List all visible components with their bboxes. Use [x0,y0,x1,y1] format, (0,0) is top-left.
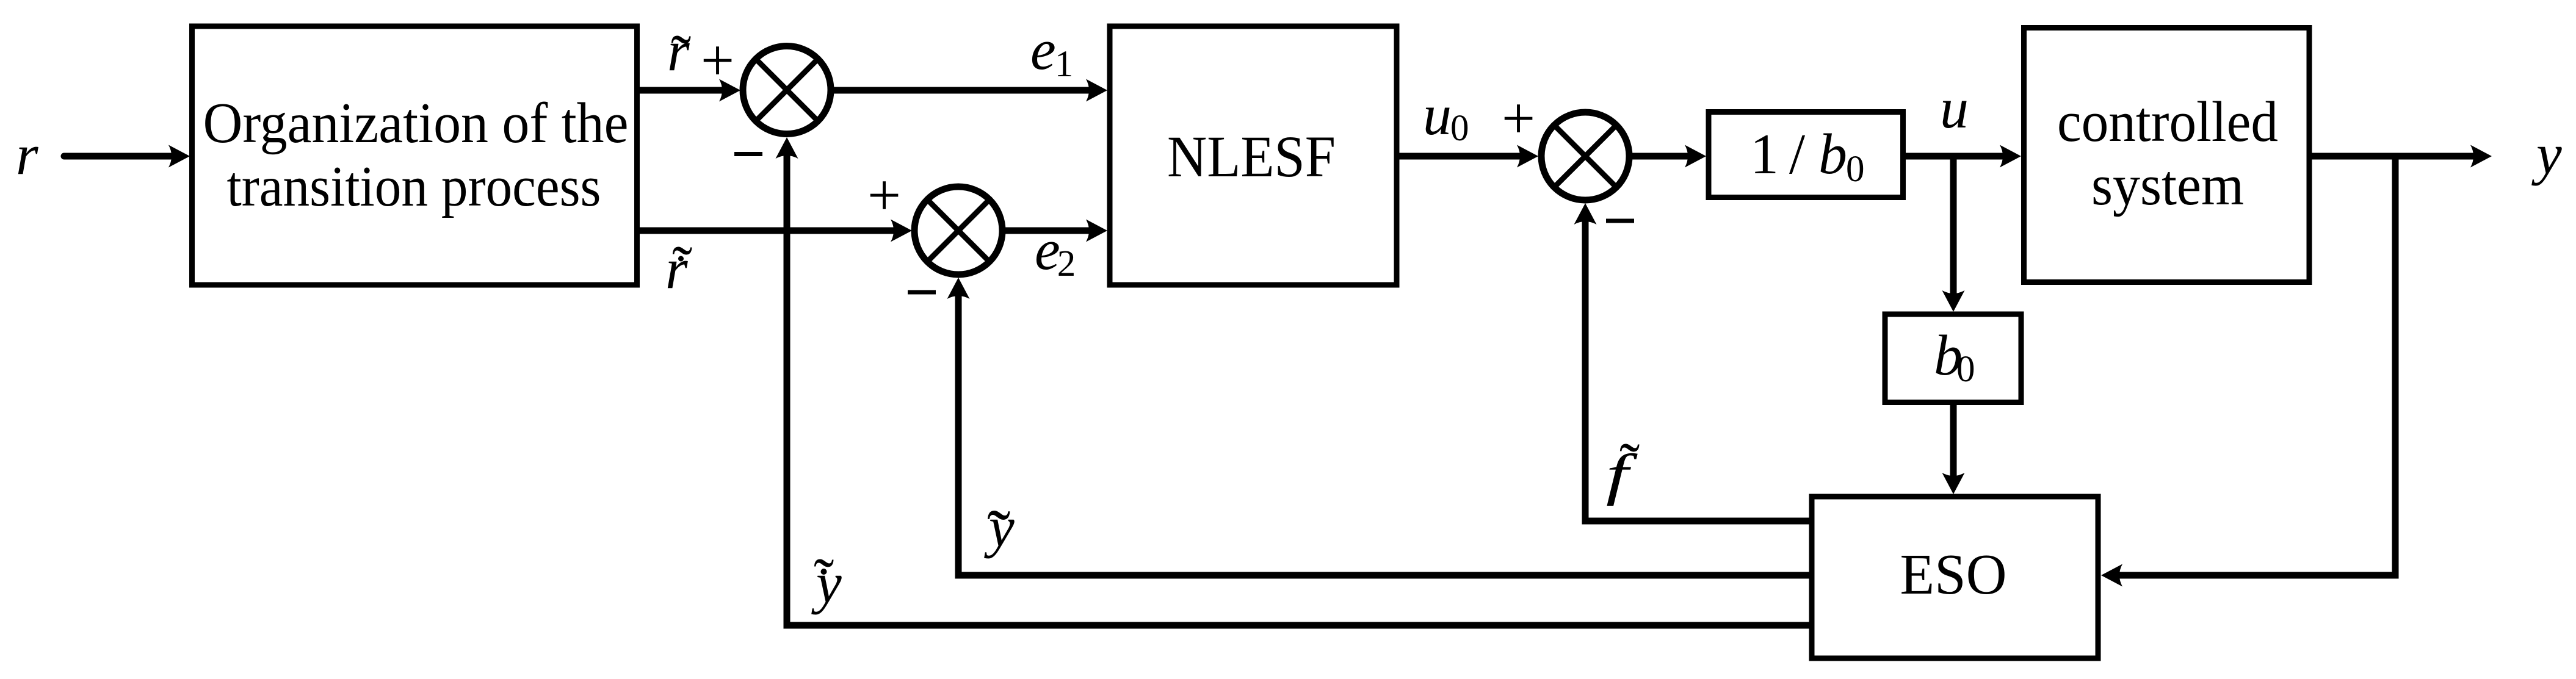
svg-text:u0: u0 [1423,84,1469,149]
wire y-tilde-dot from ESO to sum1 [787,149,1812,625]
svg-text:ESO: ESO [1900,543,2007,606]
label y-tilde-dot [811,546,842,615]
label r-tilde [667,20,691,90]
label r-tilde-dot [665,234,692,301]
box NLESF [1110,26,1397,285]
arrowhead into 1/b0 [1685,145,1706,168]
label controlled system [2057,90,2278,217]
arrowhead e1 into NLESF [1086,79,1107,102]
svg-text:Organization of the: Organization of the [203,92,629,155]
box transition process organizer [192,26,637,285]
arrowhead e2 into NLESF [1086,220,1107,242]
svg-text:˜: ˜ [1619,431,1640,498]
label Organization of the transition process [203,92,629,218]
wire y-tilde from ESO to sum2 [958,290,1812,575]
box b0 [1885,314,2021,403]
svg-text:+: + [867,162,901,228]
svg-text:transition process: transition process [227,155,601,218]
svg-text:1/b0: 1/b0 [1750,123,1865,190]
arrowhead down into ESO [1942,473,1965,494]
summing junction sum3 [1541,112,1629,200]
svg-text:r: r [16,123,38,187]
svg-text:˜: ˜ [671,23,691,90]
wire box1 top output to sum1 [640,87,728,94]
box ESO [1812,497,2098,658]
wire y feedback down and into ESO [2113,156,2395,575]
box 1/b0 [1709,112,1903,198]
svg-text:u: u [1940,77,1969,140]
svg-text:+: + [1502,85,1535,151]
svg-text:y: y [2531,123,2562,186]
arrowhead f-tilde up into sum3 [1574,203,1597,225]
arrowhead into sum2 [891,220,912,242]
wire 1/b0 to controlled system [1903,153,2009,160]
label minus at sum2 [908,290,936,295]
svg-text:NLESF: NLESF [1167,124,1336,189]
wire sum3 to 1/b0 box [1632,153,1694,160]
summing junction sum2 [914,187,1002,275]
wire u branch down to b0 [1950,156,1957,300]
arrowhead down into b0 [1942,290,1965,312]
svg-text:˜: ˜ [672,234,692,301]
wire f-tilde from ESO to sum3 [1585,215,1812,521]
arrowhead into sum3 [1517,145,1538,168]
arrowhead y output [2470,145,2492,168]
label minus at sum3 [1606,219,1634,223]
wire NLESF u0 to sum3 [1399,153,1526,160]
label minus at sum1 [734,152,762,156]
svg-text:˜: ˜ [987,496,1010,573]
label y-tilde [984,495,1015,573]
arrowhead y-tilde-dot up into sum1 [776,137,798,159]
box controlled system [2024,28,2310,282]
wire sum2 to NLESF e2 [1005,228,1095,234]
svg-text:controlled: controlled [2057,90,2278,154]
svg-text:+: + [701,27,734,93]
wire b0 down to ESO [1950,402,1957,482]
label f-tilde [1606,431,1640,506]
svg-text:b0: b0 [1934,324,1975,390]
arrowhead into controlled system [2000,145,2021,168]
summing junction sum1 [743,46,831,134]
arrowhead into box1 [168,145,190,168]
wire r input [64,153,178,160]
wire box1 bottom output to sum2 [640,228,899,234]
wire sum1 to NLESF e1 [834,87,1095,94]
arrowhead y-tilde up into sum2 [947,278,970,299]
svg-text:˜: ˜ [814,546,834,614]
svg-text:system: system [2091,154,2244,217]
wire controlled system to y output [2309,153,2480,160]
svg-text:e1: e1 [1030,18,1073,85]
arrowhead into sum1 [719,79,740,102]
arrowhead left into ESO [2101,564,2122,587]
